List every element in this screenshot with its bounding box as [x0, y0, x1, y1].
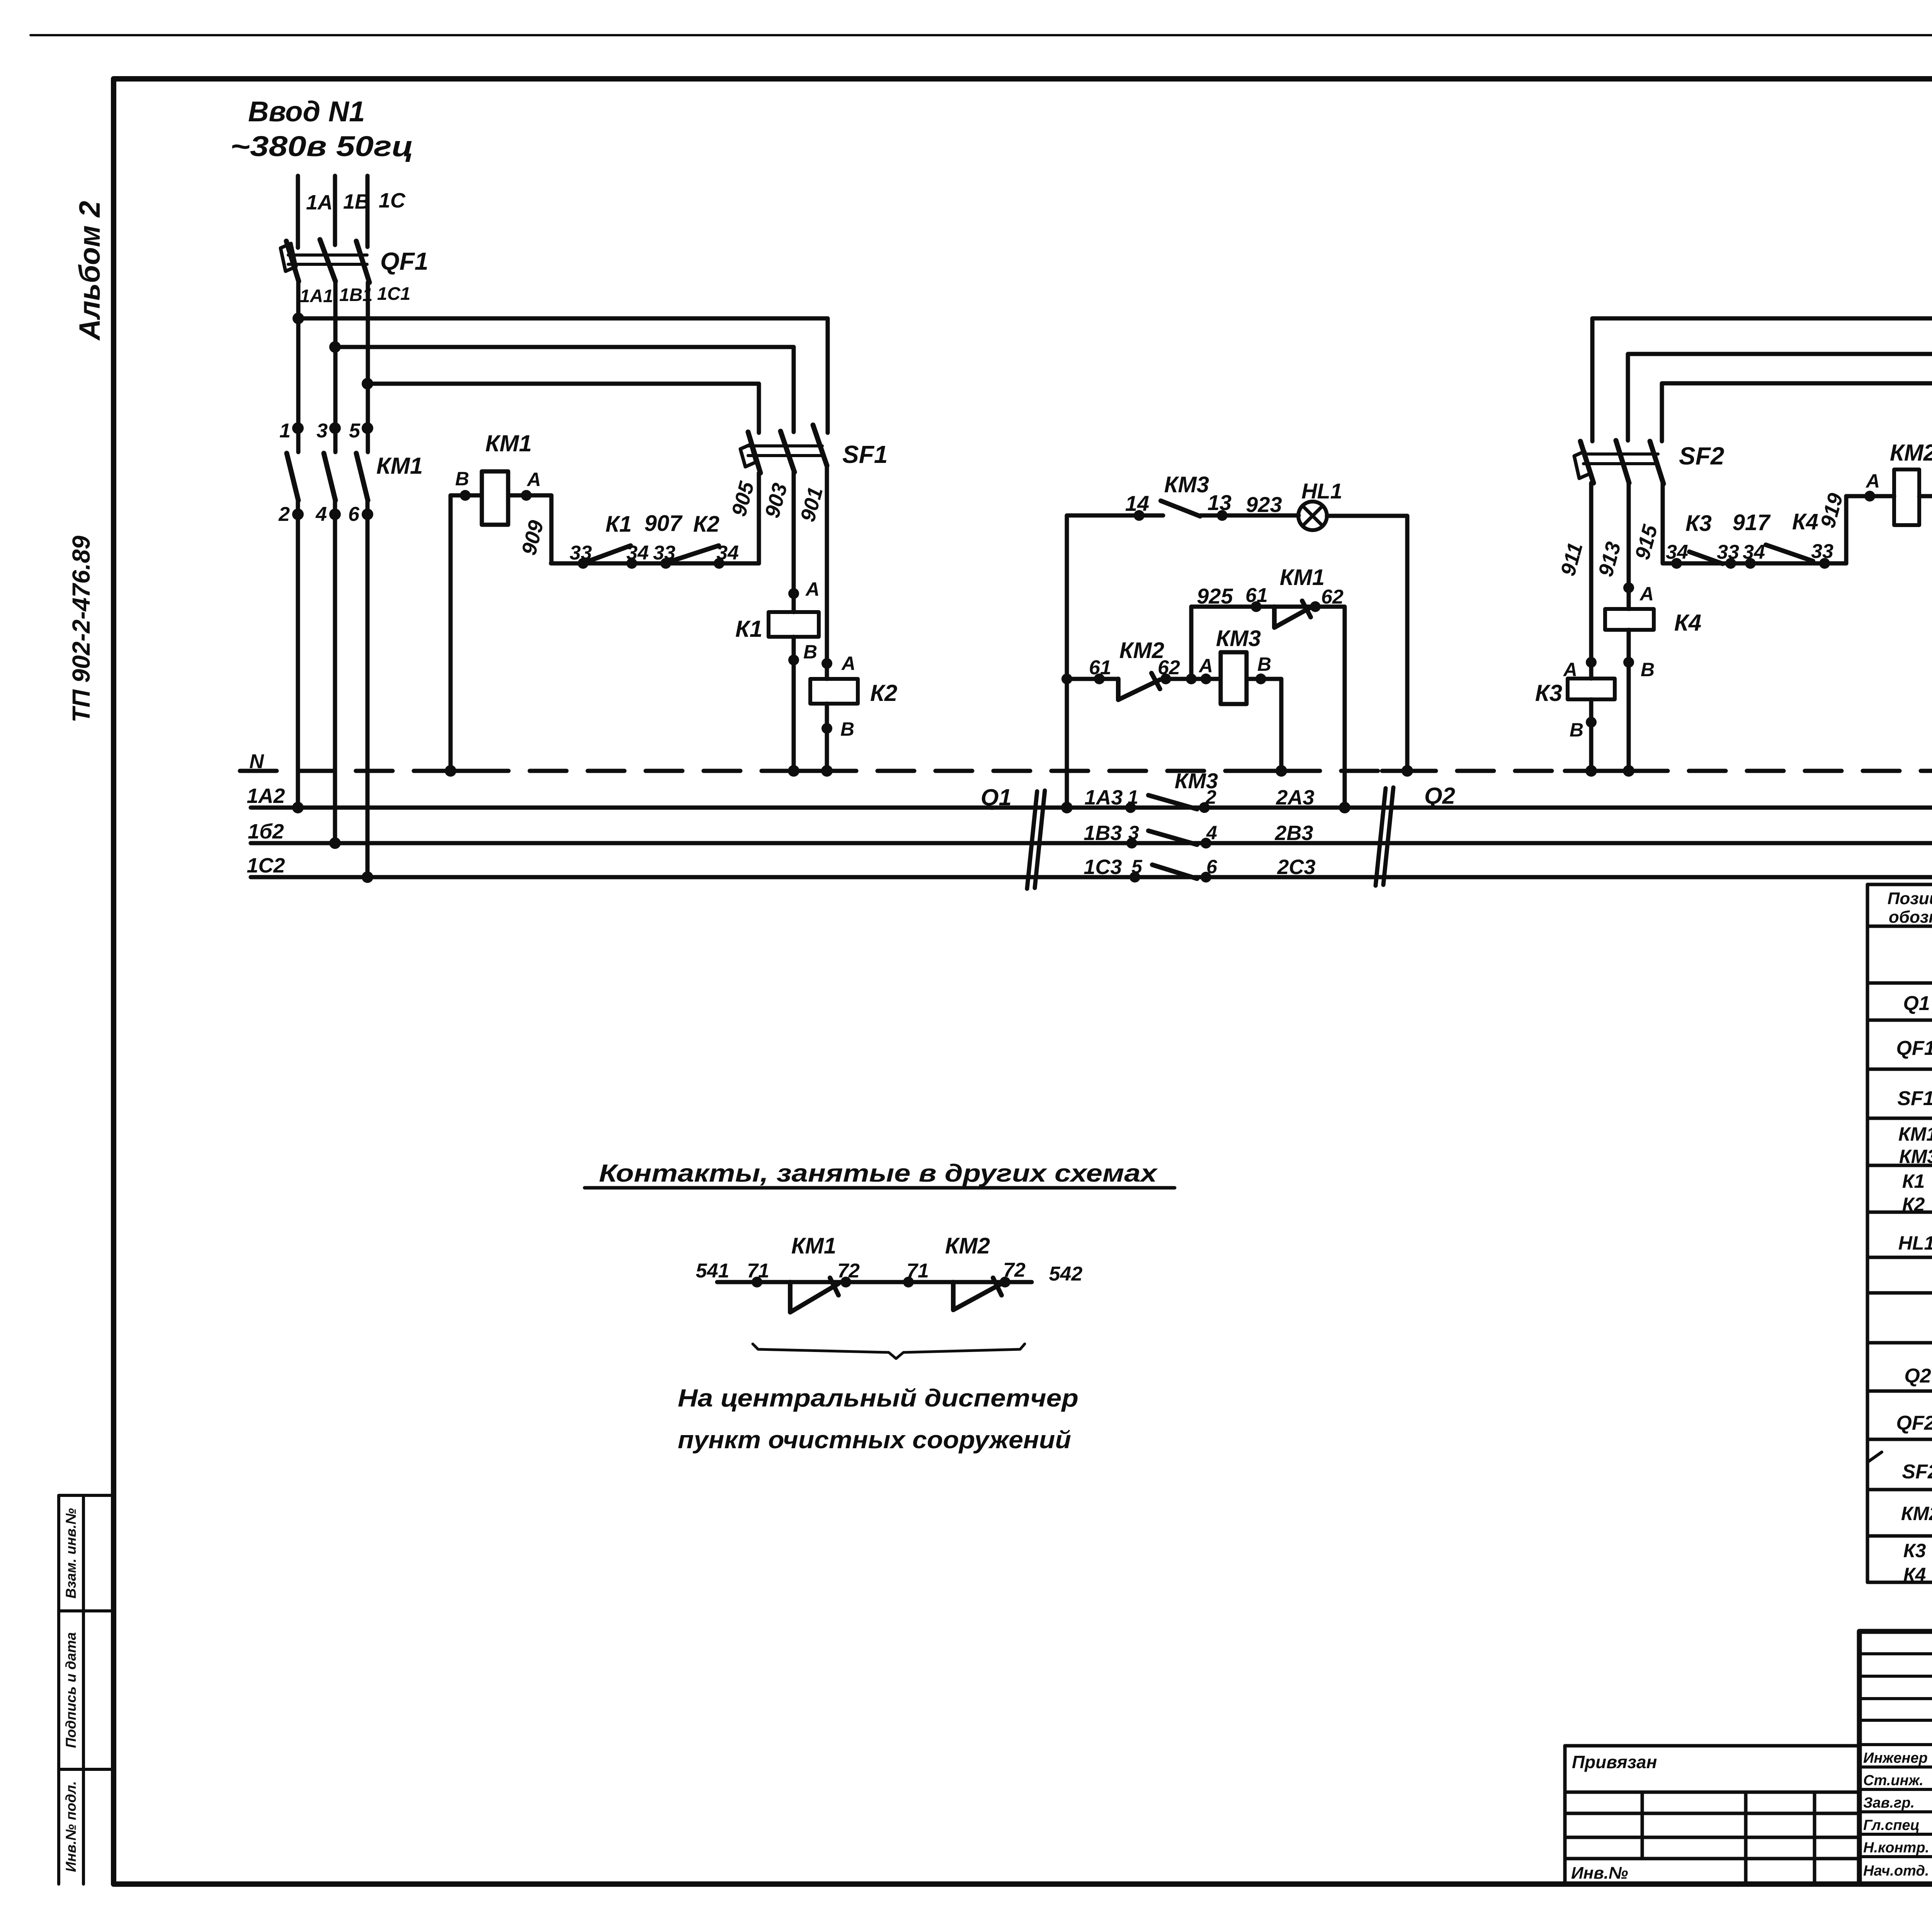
- relay К3 coil: [1568, 679, 1615, 699]
- wire phase 1C lower: [367, 282, 368, 877]
- wire bus A to SF1 pole 901: [298, 318, 828, 433]
- svg-text:1С: 1С: [379, 189, 406, 212]
- node 13: [1217, 510, 1228, 521]
- contact К4 blade: [1766, 545, 1813, 561]
- svg-text:1б2: 1б2: [248, 820, 284, 843]
- breaker QF1 flag: [281, 243, 296, 271]
- wire phase 1C upper: [366, 176, 370, 247]
- svg-text:62: 62: [1321, 586, 1344, 608]
- svg-text:QF2: QF2: [1896, 1412, 1932, 1434]
- contactor КМ1 main contact 3-4: [329, 422, 341, 434]
- wire remote contact chain: [717, 1280, 1032, 1284]
- svg-text:QF1: QF1: [1896, 1037, 1932, 1060]
- node 61 КМ1 aux: [1251, 601, 1262, 612]
- contactor КМ1 main contact 1-2: [292, 422, 304, 434]
- left mini stamp table: [59, 1495, 114, 1884]
- svg-text:71: 71: [906, 1260, 929, 1282]
- svg-text:В: В: [455, 468, 469, 490]
- svg-text:62: 62: [1158, 656, 1180, 679]
- lamp HL1: [1298, 502, 1327, 530]
- breaker SF2 pole 911 blade: [1580, 441, 1594, 483]
- svg-text:Q2: Q2: [1904, 1365, 1931, 1387]
- breaker QF1 crossbar: [288, 255, 367, 264]
- bus C line: [251, 875, 1932, 879]
- breaker SF2 pole 915 blade: [1650, 441, 1663, 484]
- svg-text:33: 33: [1717, 541, 1739, 563]
- relay К2 coil: [810, 679, 858, 704]
- svg-text:33: 33: [1811, 540, 1833, 563]
- node N КМ1 coil: [445, 765, 456, 777]
- svg-text:1С3: 1С3: [1083, 855, 1122, 879]
- wire 911: [1589, 483, 1594, 679]
- parts table grid: [1867, 884, 1932, 1582]
- node N lamp HL1: [1401, 765, 1413, 777]
- wire 915: [1661, 484, 1665, 563]
- svg-text:1А2: 1А2: [247, 784, 285, 808]
- section title underline: [585, 1186, 1175, 1190]
- node bus C phase 1C: [362, 871, 373, 883]
- coil КМ2: [1894, 469, 1919, 525]
- node А on К3: [1586, 657, 1597, 668]
- bus A line: [251, 806, 1932, 810]
- node bus A wire 925 return: [1339, 802, 1350, 813]
- svg-text:К1: К1: [605, 512, 632, 537]
- svg-text:В: В: [840, 718, 854, 740]
- svg-text:3: 3: [1128, 822, 1139, 844]
- contact КМ3 1-2: [1125, 802, 1136, 813]
- svg-text:13: 13: [1207, 490, 1231, 515]
- svg-text:HL1: HL1: [1301, 479, 1342, 503]
- svg-text:2: 2: [278, 503, 290, 526]
- node 72 first: [840, 1277, 851, 1287]
- svg-text:34: 34: [716, 542, 739, 564]
- title block signature grid: [1859, 1631, 1932, 1884]
- svg-text:КМ1: КМ1: [1280, 565, 1325, 590]
- svg-text:2С3: 2С3: [1277, 855, 1315, 879]
- svg-text:КМ3: КМ3: [1175, 769, 1218, 793]
- svg-text:Инженер: Инженер: [1863, 1750, 1928, 1766]
- svg-text:Н.контр.: Н.контр.: [1863, 1840, 1929, 1856]
- svg-text:1: 1: [1128, 786, 1138, 808]
- svg-text:К2: К2: [693, 512, 719, 537]
- svg-text:К1: К1: [735, 616, 762, 642]
- contact К1 blade: [585, 546, 631, 562]
- node 14: [1134, 510, 1145, 521]
- node bus A phase 1A: [292, 802, 304, 813]
- node N К4: [1623, 765, 1634, 777]
- svg-text:Подпись и дата: Подпись и дата: [63, 1632, 79, 1748]
- svg-text:5: 5: [1131, 856, 1143, 878]
- svg-text:К3: К3: [1903, 1540, 1926, 1561]
- wire bus 2B to SF2 pole 913: [1628, 354, 1932, 440]
- svg-text:Позиц.: Позиц.: [1888, 889, 1932, 908]
- svg-text:Альбом 2: Альбом 2: [73, 201, 106, 341]
- node junction 925: [1186, 673, 1197, 684]
- breaker QF1 pole B blade: [320, 240, 335, 281]
- node А on К1: [788, 588, 799, 599]
- node А КМ3 coil: [1201, 673, 1211, 684]
- svg-text:14: 14: [1125, 491, 1149, 515]
- node 71 first: [752, 1277, 762, 1287]
- node А КМ2 coil: [1864, 491, 1875, 502]
- svg-text:В: В: [1257, 653, 1271, 675]
- breaker SF1 pole 903 blade: [781, 431, 794, 472]
- svg-text:К3: К3: [1535, 680, 1562, 706]
- svg-text:Q2: Q2: [1424, 783, 1455, 809]
- node bus B phase 1B: [329, 837, 341, 849]
- wire bus 2C to SF2 pole 911: [1592, 318, 1932, 441]
- contact К3 blade: [1689, 552, 1723, 564]
- svg-text:А: А: [1865, 470, 1880, 492]
- breaker SF2 flag: [1574, 451, 1590, 478]
- svg-text:541: 541: [696, 1260, 730, 1282]
- svg-text:1А3: 1А3: [1084, 786, 1122, 809]
- wire К4 to N: [1627, 630, 1631, 771]
- svg-text:К4: К4: [1792, 509, 1818, 534]
- breaker QF1 pole C blade: [356, 241, 369, 282]
- contact КМ3 3-4: [1126, 838, 1137, 849]
- svg-text:К2: К2: [1902, 1194, 1925, 1215]
- wire phase 1B lower: [335, 281, 335, 843]
- svg-text:КМ2: КМ2: [1890, 440, 1932, 466]
- svg-text:SF1: SF1: [842, 440, 888, 468]
- svg-text:SF2: SF2: [1679, 442, 1724, 470]
- breaker QF1 pole A blade: [286, 241, 299, 281]
- svg-text:КМ1: КМ1: [485, 430, 532, 456]
- svg-text:Гл.спец: Гл.спец: [1863, 1817, 1920, 1833]
- svg-text:Зав.гр.: Зав.гр.: [1863, 1795, 1915, 1811]
- wire contact chain К1 К2: [551, 561, 759, 566]
- contact КМ3 5-6: [1129, 872, 1140, 883]
- outer sheet border top: [31, 34, 1932, 36]
- svg-text:Инв.№ подл.: Инв.№ подл.: [63, 1781, 79, 1872]
- svg-text:SF1: SF1: [1897, 1087, 1932, 1110]
- wire 913: [1627, 483, 1631, 609]
- title block outline: [1859, 1631, 1932, 1884]
- node В on К4: [1623, 657, 1634, 668]
- contactor КМ1 main contact 5-6: [362, 422, 373, 434]
- svg-text:72: 72: [837, 1260, 860, 1282]
- svg-text:1А: 1А: [306, 191, 333, 214]
- svg-text:3: 3: [316, 420, 328, 442]
- wire 923 to lamp: [1200, 514, 1299, 518]
- svg-text:Взам. инв.№: Взам. инв.№: [63, 1508, 79, 1599]
- wire bus B to SF1 pole 903: [335, 347, 794, 432]
- svg-text:917: 917: [1733, 510, 1771, 535]
- breaker SF1 pole 901 blade: [813, 425, 827, 466]
- svg-text:В: В: [1641, 659, 1655, 680]
- svg-text:1С2: 1С2: [247, 854, 285, 877]
- svg-text:К1: К1: [1902, 1170, 1925, 1192]
- svg-text:1В3: 1В3: [1083, 821, 1122, 845]
- relay К1 coil: [769, 612, 819, 637]
- coil КМ1: [482, 471, 508, 525]
- node tap A to SF1: [293, 313, 304, 324]
- node tap C to SF1: [362, 378, 373, 389]
- svg-text:1А1: 1А1: [300, 286, 333, 306]
- svg-text:5: 5: [349, 420, 361, 442]
- wire КМ2 coil right to N: [1919, 496, 1932, 771]
- svg-text:КМ3: КМ3: [1216, 626, 1261, 651]
- svg-text:А: А: [1639, 583, 1654, 605]
- svg-text:Инв.№: Инв.№: [1571, 1864, 1628, 1883]
- coil КМ3: [1221, 652, 1247, 704]
- svg-text:Привязан: Привязан: [1572, 1752, 1657, 1772]
- N bus dashed: [240, 769, 1932, 773]
- wire 903: [792, 472, 796, 612]
- svg-text:34: 34: [1743, 541, 1765, 563]
- brace under chain: [753, 1344, 1025, 1359]
- switch Q2 bars: [1376, 787, 1393, 886]
- node А on К4: [1623, 582, 1634, 593]
- svg-text:61: 61: [1245, 584, 1268, 607]
- wire phase 1B upper: [333, 176, 337, 245]
- svg-text:QF1: QF1: [380, 247, 428, 275]
- wire КМ3 coil to N: [1247, 679, 1281, 771]
- svg-text:542: 542: [1049, 1263, 1083, 1285]
- svg-text:Ввод N1: Ввод N1: [248, 95, 365, 128]
- svg-text:2А3: 2А3: [1276, 786, 1314, 809]
- node N К2: [821, 765, 833, 777]
- svg-text:обозн.: обозн.: [1889, 908, 1932, 927]
- relay К4 coil: [1605, 609, 1654, 630]
- wire К3 to N: [1589, 699, 1594, 771]
- svg-text:SF2: SF2: [1902, 1461, 1932, 1483]
- N bus solid joints: [425, 769, 1932, 773]
- node junction control left: [1061, 673, 1072, 684]
- svg-text:А: А: [841, 653, 855, 674]
- node В КМ3 coil: [1255, 673, 1266, 684]
- contact КМ1 aux НЗ: [1274, 601, 1311, 628]
- svg-text:В: В: [803, 641, 817, 663]
- svg-text:33: 33: [570, 542, 592, 564]
- svg-text:72: 72: [1003, 1259, 1026, 1281]
- breaker SF2 pole 913 blade: [1616, 440, 1629, 483]
- svg-text:923: 923: [1246, 492, 1282, 517]
- node 62 КМ2 aux: [1160, 673, 1171, 684]
- svg-text:А: А: [805, 578, 820, 600]
- control wire top from 1А3: [1067, 515, 1163, 808]
- svg-text:К4: К4: [1903, 1564, 1926, 1585]
- svg-text:КМ3: КМ3: [1164, 472, 1209, 497]
- svg-text:КМ1: КМ1: [376, 453, 423, 479]
- wire 905: [757, 473, 761, 563]
- node А on К2: [821, 658, 832, 669]
- node N К1: [788, 765, 799, 777]
- node 72 second: [1000, 1277, 1010, 1287]
- contact КМ2 aux НЗ: [1118, 673, 1160, 700]
- svg-text:1В: 1В: [343, 190, 370, 213]
- svg-text:пункт очистных сооружений: пункт очистных сооружений: [678, 1426, 1071, 1454]
- svg-text:Ст.инж.: Ст.инж.: [1863, 1772, 1923, 1789]
- wire phase 1A upper: [296, 176, 300, 248]
- svg-text:~380в 50гц: ~380в 50гц: [230, 130, 413, 162]
- svg-text:КМ2: КМ2: [1901, 1503, 1932, 1524]
- svg-text:А: А: [1563, 659, 1577, 680]
- switch Q1 bars: [1027, 791, 1045, 889]
- wire phase 1A lower: [298, 281, 298, 808]
- svg-text:2В3: 2В3: [1274, 821, 1313, 845]
- svg-text:1: 1: [279, 420, 291, 442]
- wire К1 to N: [792, 637, 796, 771]
- contact КМ3 13-14 blade: [1161, 501, 1200, 516]
- wire 919: [1844, 496, 1849, 563]
- svg-text:6: 6: [1206, 856, 1218, 878]
- svg-text:Q1: Q1: [1903, 992, 1930, 1015]
- breaker SF2 crossbar: [1583, 454, 1658, 464]
- svg-text:Контакты, занятые в других схе: Контакты, занятые в других схемах: [599, 1159, 1158, 1187]
- svg-text:6: 6: [348, 503, 360, 526]
- svg-text:HL1: HL1: [1898, 1232, 1932, 1254]
- wire lamp to N: [1327, 516, 1407, 771]
- wire КМ2 aux contact row: [1067, 677, 1221, 681]
- wire coil КМ1 left: [451, 495, 482, 771]
- wire bus C to SF1 pole 905: [367, 384, 759, 433]
- node В on К3: [1586, 717, 1597, 728]
- svg-text:4: 4: [315, 503, 327, 526]
- привязан block grid: [1565, 1746, 1859, 1884]
- node В on К2: [821, 723, 832, 734]
- svg-text:Q1: Q1: [981, 784, 1012, 810]
- svg-text:61: 61: [1089, 656, 1111, 679]
- node 71 second: [903, 1277, 914, 1287]
- svg-text:А: А: [526, 469, 541, 490]
- wire 901: [825, 466, 829, 679]
- wire coil КМ1 right 909: [508, 495, 551, 563]
- svg-text:А: А: [1198, 655, 1213, 677]
- breaker SF1 pole 905 blade: [748, 432, 760, 473]
- svg-text:4: 4: [1206, 822, 1217, 844]
- svg-text:КМ1: КМ1: [791, 1233, 836, 1259]
- contact К2 blade: [668, 546, 719, 562]
- node N К3: [1585, 765, 1597, 777]
- wire bus 2A to SF2 pole 915: [1662, 383, 1932, 441]
- node 61 КМ2 aux: [1094, 673, 1105, 684]
- contact КМ2 remote: [953, 1278, 1002, 1310]
- svg-text:К2: К2: [870, 680, 897, 706]
- bus B line: [251, 841, 1932, 845]
- wire contact chain К3 К4: [1663, 561, 1846, 566]
- svg-text:К3: К3: [1685, 511, 1712, 536]
- svg-text:71: 71: [747, 1260, 769, 1282]
- svg-text:33: 33: [653, 542, 675, 564]
- svg-text:34: 34: [626, 542, 649, 564]
- node N КМ3 coil: [1276, 765, 1287, 777]
- svg-text:34: 34: [1666, 541, 1688, 563]
- svg-text:925: 925: [1197, 584, 1233, 608]
- svg-text:К4: К4: [1674, 610, 1701, 636]
- svg-text:Нач.отд.: Нач.отд.: [1863, 1863, 1929, 1879]
- breaker SF1 flag: [740, 444, 756, 467]
- svg-text:КМ2: КМ2: [945, 1233, 990, 1259]
- node 62 КМ1 aux: [1310, 601, 1321, 612]
- wire 925 branch: [1191, 607, 1345, 808]
- svg-text:907: 907: [645, 511, 683, 536]
- svg-text:ТП 902-2-476.89: ТП 902-2-476.89: [67, 536, 95, 723]
- svg-text:На центральный диспетчер: На центральный диспетчер: [678, 1384, 1078, 1412]
- breaker SF1 crossbar: [748, 446, 822, 456]
- svg-text:В: В: [1570, 719, 1583, 741]
- wire КМ2 coil left: [1846, 494, 1894, 498]
- wire К2 to N: [825, 704, 829, 771]
- node В on К1: [788, 655, 799, 665]
- node bus A control feed: [1061, 802, 1073, 813]
- svg-text:КМ1: КМ1: [1898, 1123, 1932, 1145]
- svg-text:КМ3: КМ3: [1899, 1146, 1932, 1167]
- node tap B to SF1: [329, 341, 341, 353]
- svg-text:1С1: 1С1: [377, 283, 410, 304]
- contact КМ1 remote: [790, 1278, 838, 1312]
